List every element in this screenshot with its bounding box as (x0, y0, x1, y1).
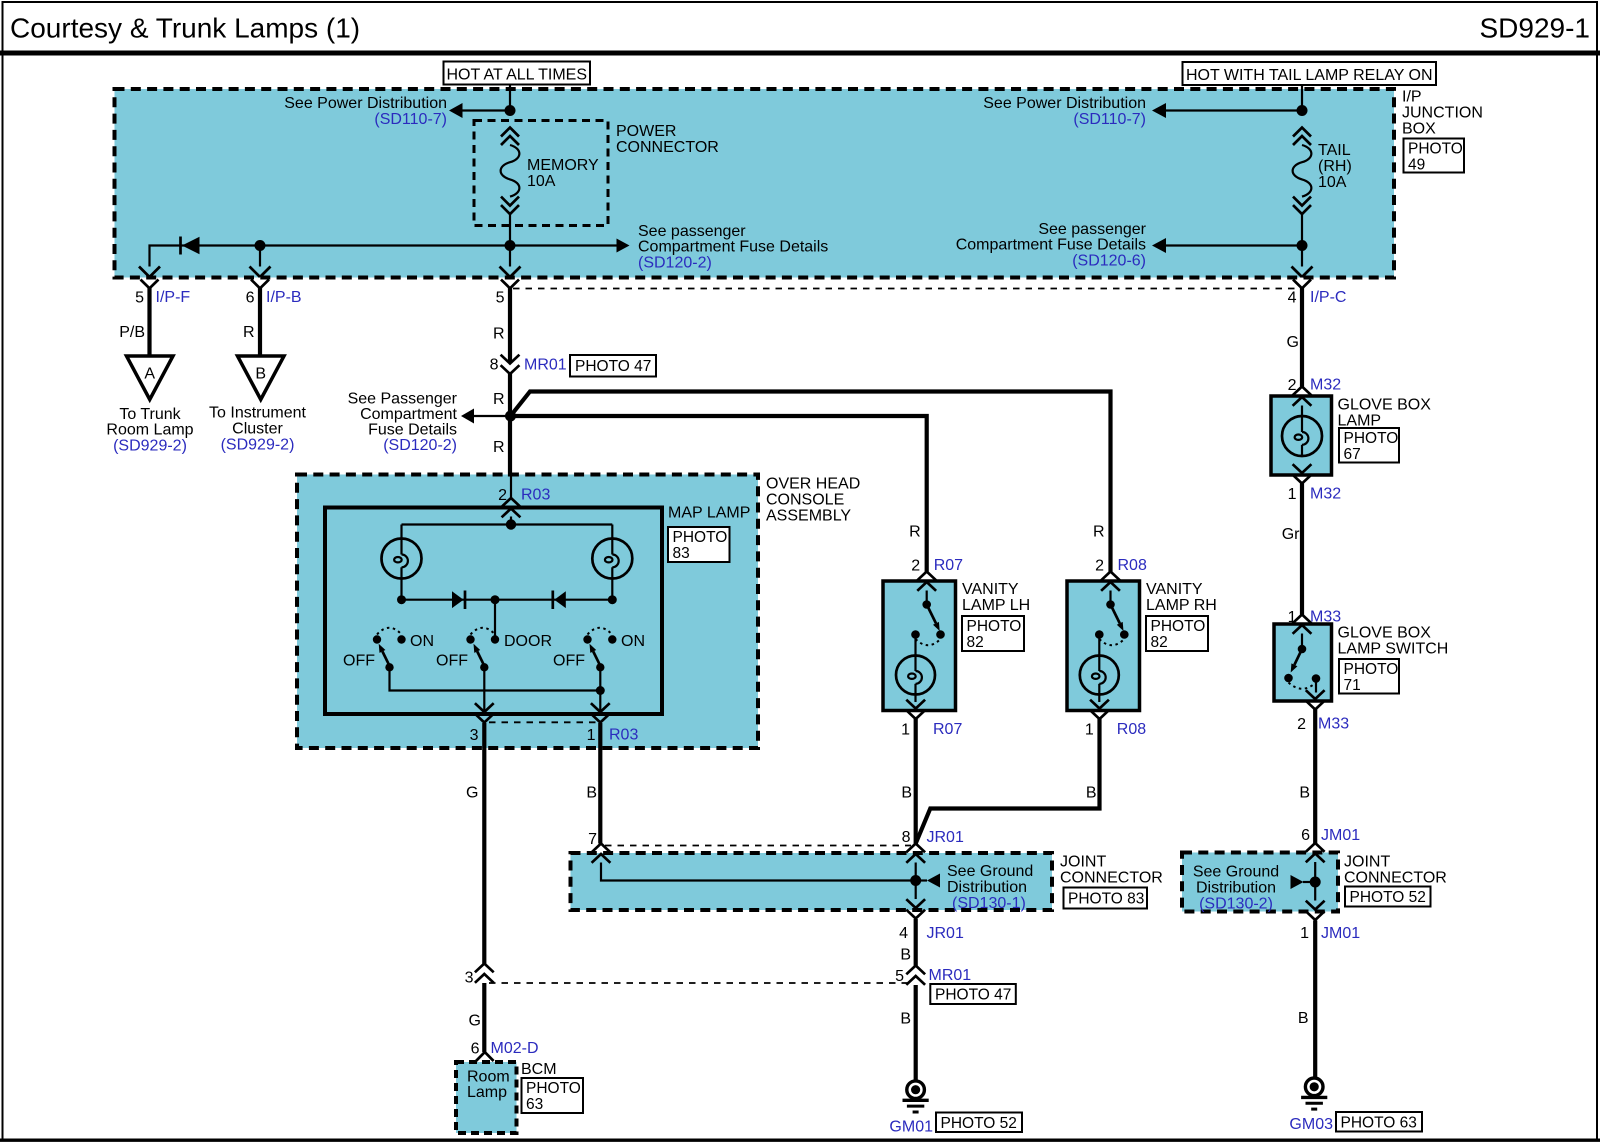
vanity lamp LH box (R07) (883, 581, 956, 711)
svg-text:ON: ON (621, 633, 645, 650)
svg-text:GLOVE BOX: GLOVE BOX (1338, 625, 1432, 642)
off-page triangle B to instrument cluster (238, 356, 285, 400)
svg-text:CONNECTOR: CONNECTOR (1344, 870, 1447, 887)
connector R03 pin 1 (587, 703, 639, 744)
svg-text:8: 8 (902, 829, 911, 846)
connector pin 4 at I/P junction box edge (I/P-C) (1288, 267, 1347, 307)
wire: lamp rail (402, 523, 613, 525)
svg-text:See Passenger: See Passenger (348, 391, 458, 408)
svg-text:To Trunk: To Trunk (119, 406, 181, 423)
wire: centre switch to pin 3 (483, 667, 485, 711)
node: vanity feed branch (505, 411, 516, 422)
svg-text:See Power Distribution: See Power Distribution (284, 95, 447, 112)
svg-text:LAMP LH: LAMP LH (962, 597, 1030, 614)
wire: bus centre down to door contact (494, 600, 496, 636)
connector JR01 pin 4 (899, 899, 964, 942)
svg-text:1: 1 (1300, 925, 1309, 942)
svg-text:10A: 10A (1318, 174, 1347, 191)
label: POWER CONNECTOR (616, 123, 719, 156)
map lamp switch centre (OFF/DOOR) (436, 628, 552, 672)
node: bus centre (491, 595, 500, 604)
fuse TAIL (RH) 10A (1293, 128, 1352, 215)
svg-text:7: 7 (588, 831, 597, 848)
wire: M32 to M33 (Gr) (1282, 484, 1302, 615)
wire: drop to pin 5 (509, 246, 511, 267)
node: junction at tail fuse feed (1297, 105, 1308, 116)
wire: right bulb to diode bus (611, 579, 613, 600)
glove box lamp bulb (1282, 406, 1322, 457)
svg-text:8: 8 (490, 357, 499, 374)
svg-text:LAMP RH: LAMP RH (1146, 597, 1217, 614)
node: junction at memory fuse feed (505, 105, 516, 116)
svg-text:M33: M33 (1310, 609, 1341, 626)
svg-text:Compartment Fuse Details: Compartment Fuse Details (638, 239, 828, 256)
svg-text:See passenger: See passenger (638, 223, 746, 240)
dashed connector link pin5 to pin4 (513, 288, 1300, 290)
svg-text:5: 5 (135, 290, 144, 307)
svg-text:Gr: Gr (1282, 526, 1300, 543)
node: bus junction at I/P-B drop (255, 240, 266, 251)
svg-text:MAP LAMP: MAP LAMP (668, 505, 750, 522)
wire: JR01 internal pin8 to pin4 (915, 863, 917, 900)
fuse MEMORY 10A (501, 128, 599, 215)
svg-text:I/P-B: I/P-B (266, 289, 302, 306)
svg-text:JOINT: JOINT (1344, 854, 1390, 871)
connector JM01 pin 1 (1300, 901, 1360, 942)
svg-text:49: 49 (1408, 157, 1425, 174)
svg-text:M02-D: M02-D (491, 1040, 539, 1057)
wire: R03 pin2 to lamp rail (510, 517, 512, 525)
see passenger compartment fuse details (SD120-2) arrow right (617, 223, 829, 272)
connector pin 6 at I/P junction box edge (I/P-B) (246, 267, 302, 307)
glove box lamp switch (1284, 634, 1320, 693)
svg-text:Distribution: Distribution (1196, 880, 1276, 897)
label: VANITY LAMP RH (1146, 581, 1217, 614)
off-page triangle A to trunk room lamp (127, 356, 174, 400)
svg-text:Lamp: Lamp (467, 1084, 507, 1101)
node: junction at pin 4 drop (1297, 240, 1308, 251)
label box: PHOTO 82 (R08) (1146, 616, 1208, 651)
svg-text:CONNECTOR: CONNECTOR (1060, 870, 1163, 887)
vanity lamp RH box (R08) (1067, 581, 1140, 711)
svg-text:M33: M33 (1318, 716, 1349, 733)
svg-text:SD929-1: SD929-1 (1479, 13, 1590, 44)
wire: node down to R03 pin 2 (R) (493, 416, 511, 498)
page bottom border rule (0, 1138, 1600, 1141)
glove box lamp box (M32) (1271, 396, 1332, 475)
see power distribution (left) arrow and text (284, 95, 510, 128)
glove box lamp switch box (M33) (1274, 624, 1332, 701)
svg-text:R: R (243, 324, 255, 341)
svg-text:R03: R03 (609, 727, 638, 744)
svg-text:6: 6 (471, 1041, 480, 1058)
label: MAP LAMP (668, 505, 750, 522)
svg-text:G: G (469, 1013, 481, 1030)
title separator rule (0, 51, 1600, 56)
svg-text:OFF: OFF (343, 653, 375, 670)
map lamp box (325, 508, 662, 715)
wire: JM01 internal run (1314, 862, 1316, 901)
svg-text:6: 6 (246, 290, 255, 307)
label: VANITY LAMP LH (962, 581, 1030, 614)
svg-text:B: B (901, 785, 912, 802)
svg-text:R07: R07 (933, 721, 962, 738)
svg-text:3: 3 (470, 727, 479, 744)
svg-text:JR01: JR01 (927, 829, 964, 846)
svg-text:Distribution: Distribution (947, 879, 1027, 896)
svg-text:67: 67 (1344, 446, 1361, 463)
wire: hot feed down (left) (509, 85, 511, 113)
node: bus junction at pin 5 drop (505, 240, 516, 251)
see ground distribution (SD130-1) arrow and text (921, 863, 1034, 912)
diode D2 (pointing right) (452, 591, 465, 610)
node: bus left (397, 595, 406, 604)
label: OVER HEAD CONSOLE ASSEMBLY (766, 476, 860, 525)
label box: PHOTO 83 (map lamp) (668, 527, 730, 562)
svg-text:JM01: JM01 (1321, 925, 1360, 942)
svg-text:M32: M32 (1310, 486, 1341, 503)
power connector (dashed box) (474, 121, 608, 226)
svg-text:(SD929-2): (SD929-2) (221, 437, 295, 454)
wire: drop to pin 6 (259, 246, 261, 267)
label: GLOVE BOX LAMP (1338, 397, 1432, 430)
svg-text:PHOTO 47: PHOTO 47 (935, 987, 1011, 1004)
wire label R above R08 (1093, 524, 1105, 541)
svg-text:PHOTO: PHOTO (1408, 141, 1463, 158)
wire: hot feed down (right) (1301, 85, 1303, 112)
svg-text:See Power Distribution: See Power Distribution (983, 95, 1146, 112)
wire: JM01 pin 1 to ground GM03 (B) (1298, 921, 1315, 1079)
svg-text:3: 3 (465, 970, 474, 987)
vanity lamp LH switch (911, 591, 945, 646)
map lamp switch right (OFF/ON) (553, 628, 645, 672)
connector JR01 pin 8 (902, 829, 964, 863)
svg-text:PHOTO 52: PHOTO 52 (1350, 889, 1426, 906)
connector R08 pin 2 (1095, 557, 1147, 591)
svg-text:4: 4 (1288, 290, 1297, 307)
diode D1 (bus, pointing left) (181, 237, 200, 255)
svg-text:82: 82 (967, 634, 984, 651)
svg-text:Compartment Fuse Details: Compartment Fuse Details (956, 237, 1146, 254)
see ground distribution (SD130-2) arrow and text (1193, 864, 1310, 913)
svg-text:P/B: P/B (119, 324, 145, 341)
svg-text:MEMORY: MEMORY (527, 157, 599, 174)
svg-text:71: 71 (1344, 677, 1361, 694)
svg-text:B: B (1299, 785, 1310, 802)
svg-text:Room Lamp: Room Lamp (106, 422, 193, 439)
svg-text:R: R (493, 439, 505, 456)
svg-text:ON: ON (410, 633, 434, 650)
wire: MR01 down to branch node (R) (493, 374, 510, 417)
svg-text:PHOTO 52: PHOTO 52 (941, 1115, 1017, 1132)
connector R07 pin 1 (901, 700, 962, 739)
wire: R07 pin 1 down to JR01 pin 8 (B) (901, 719, 915, 844)
wire: pin5 I/P-F down (P/B) (119, 288, 149, 356)
svg-text:I/P-F: I/P-F (156, 289, 191, 306)
svg-text:See Ground: See Ground (1193, 864, 1279, 881)
wire: connector 3 down to BCM (G) (469, 983, 485, 1052)
label: Room Lamp (467, 1069, 510, 1102)
svg-text:63: 63 (526, 1096, 543, 1113)
svg-text:VANITY: VANITY (1146, 581, 1203, 598)
svg-text:(SD929-2): (SD929-2) (113, 438, 187, 455)
wire: left bulb to diode bus (400, 579, 402, 600)
map lamp bulb right (592, 525, 632, 579)
label box: PHOTO 67 (1339, 428, 1399, 463)
I/P junction box (dashed cyan) (115, 89, 1395, 278)
svg-text:1: 1 (1085, 722, 1094, 739)
svg-text:I/P-C: I/P-C (1310, 289, 1346, 306)
connector R03 pin 2 (498, 487, 550, 518)
see passenger compartment fuse details (SD120-2) arrow left (348, 391, 508, 455)
svg-text:OFF: OFF (553, 653, 585, 670)
wire: branch to vanity lamp LH (lower run) (511, 416, 927, 572)
svg-text:(SD130-1): (SD130-1) (952, 895, 1026, 912)
svg-text:G: G (466, 785, 478, 802)
svg-text:JM01: JM01 (1321, 827, 1360, 844)
connector pin 5 at I/P junction box edge (I/P-F) (135, 267, 190, 307)
wire: pin 4 I/P-C down (G) (1287, 288, 1302, 387)
label box: PHOTO 52 (JM01) (1345, 887, 1431, 907)
wire: pin 5 down to MR01 (R) (493, 288, 510, 363)
svg-text:G: G (1287, 334, 1299, 351)
map lamp switch left (OFF/ON) (343, 628, 434, 672)
svg-text:1: 1 (587, 727, 596, 744)
ground GM01 (889, 1081, 933, 1136)
label box: PHOTO 82 (R07) (962, 616, 1024, 651)
label box: PHOTO 52 (GM01) (936, 1113, 1022, 1133)
svg-text:R03: R03 (521, 487, 550, 504)
label: JOINT CONNECTOR (JR01) (1060, 854, 1163, 887)
svg-text:JR01: JR01 (927, 925, 964, 942)
dashed connector link JR01 pin7 to pin8 (605, 845, 911, 847)
svg-text:I/P: I/P (1402, 89, 1422, 106)
label: GLOVE BOX LAMP SWITCH (1338, 625, 1449, 658)
svg-text:PHOTO: PHOTO (1344, 661, 1399, 678)
svg-text:(SD110-7): (SD110-7) (374, 111, 447, 128)
svg-text:R: R (493, 391, 505, 408)
svg-text:1: 1 (901, 722, 910, 739)
wire: diode bus (402, 599, 613, 601)
see passenger compartment fuse details (SD120-6) arrow and text (956, 221, 1302, 270)
overhead console assembly (dashed cyan box) (297, 475, 758, 749)
svg-text:M32: M32 (1310, 377, 1341, 394)
svg-text:B: B (586, 785, 597, 802)
svg-text:LAMP SWITCH: LAMP SWITCH (1338, 641, 1449, 658)
svg-text:2: 2 (1095, 558, 1104, 575)
svg-text:6: 6 (1301, 827, 1310, 844)
svg-text:MR01: MR01 (524, 357, 567, 374)
svg-text:Fuse Details: Fuse Details (368, 422, 457, 439)
svg-text:1: 1 (1288, 609, 1297, 626)
svg-text:(SD120-2): (SD120-2) (383, 437, 457, 454)
svg-text:PHOTO: PHOTO (673, 529, 728, 546)
connector M32 pin 1 (1288, 464, 1342, 503)
connector R03 pin 3 (470, 703, 494, 744)
sheet number SD929-1 (1479, 13, 1590, 44)
connector M02-D pin 6 (471, 1040, 539, 1061)
svg-text:R: R (909, 524, 921, 541)
svg-text:(SD120-6): (SD120-6) (1072, 253, 1146, 270)
label: To Trunk Room Lamp (SD929-2) (106, 406, 193, 455)
svg-text:PHOTO 47: PHOTO 47 (575, 358, 651, 375)
label box: PHOTO 71 (1339, 659, 1399, 694)
svg-text:CONNECTOR: CONNECTOR (616, 139, 719, 156)
svg-text:HOT WITH TAIL LAMP RELAY ON: HOT WITH TAIL LAMP RELAY ON (1186, 67, 1433, 84)
svg-text:2: 2 (911, 558, 920, 575)
svg-text:Compartment: Compartment (360, 406, 457, 423)
svg-text:Cluster: Cluster (232, 421, 283, 438)
title: Courtesy &amp; Trunk Lamps (1) (10, 13, 360, 44)
svg-text:(SD130-2): (SD130-2) (1199, 896, 1273, 913)
svg-text:4: 4 (899, 925, 908, 942)
wire label R above R07 (909, 524, 921, 541)
svg-text:82: 82 (1151, 634, 1168, 651)
label: JOINT CONNECTOR (JM01) (1344, 854, 1447, 887)
connector pin 5 at I/P junction box edge (496, 267, 521, 307)
svg-text:B: B (1298, 1010, 1309, 1027)
label box: PHOTO 63 (GM03) (1336, 1112, 1422, 1132)
svg-text:A: A (144, 366, 155, 383)
svg-text:5: 5 (496, 290, 505, 307)
diode D3 (pointing left) (553, 591, 566, 610)
vanity lamp RH switch (1095, 591, 1129, 646)
label: HOT AT ALL TIMES (444, 62, 591, 85)
wire: M33 pin 2 down to JM01 pin 6 (B) (1299, 710, 1315, 844)
vanity lamp LH bulb (896, 635, 935, 703)
node: bus right (608, 595, 617, 604)
svg-text:HOT AT ALL TIMES: HOT AT ALL TIMES (447, 67, 588, 84)
label box: PHOTO 47 (MR01 lower) (930, 984, 1016, 1004)
svg-text:GLOVE BOX: GLOVE BOX (1338, 397, 1432, 414)
svg-text:To Instrument: To Instrument (209, 405, 306, 422)
svg-text:(SD110-7): (SD110-7) (1073, 111, 1146, 128)
svg-text:LAMP: LAMP (1338, 413, 1382, 430)
wire: tail fuse down (1301, 214, 1303, 266)
svg-text:JUNCTION: JUNCTION (1402, 105, 1483, 122)
svg-text:ASSEMBLY: ASSEMBLY (766, 508, 851, 525)
svg-text:VANITY: VANITY (962, 581, 1019, 598)
wire: JR01 internal pin7 run (601, 863, 916, 881)
wire: memory fuse to bus (509, 214, 511, 245)
svg-text:R08: R08 (1118, 557, 1147, 574)
svg-text:MR01: MR01 (929, 967, 972, 984)
label: HOT WITH TAIL LAMP RELAY ON (1183, 62, 1437, 85)
wire: switch return bus (390, 667, 601, 690)
svg-text:JOINT: JOINT (1060, 854, 1106, 871)
dashed connector link 3 to MR01 pin 5 (489, 982, 910, 984)
connector M33 pin 2 (1297, 690, 1349, 733)
connector JR01 pin 7 (588, 831, 610, 863)
svg-text:Courtesy & Trunk Lamps (1): Courtesy & Trunk Lamps (1) (10, 13, 360, 44)
wire: JR01 pin 4 down (B) (900, 919, 915, 966)
svg-text:2: 2 (498, 487, 507, 504)
label box: PHOTO 83 (JR01) (1064, 888, 1148, 909)
dashed connector link R03 pin3 to pin1 (489, 721, 596, 723)
svg-text:(RH): (RH) (1318, 158, 1352, 175)
svg-text:See passenger: See passenger (1038, 221, 1146, 238)
label: To Instrument Cluster (SD929-2) (209, 405, 306, 454)
node: JR01 ground bus (910, 875, 921, 886)
label box: PHOTO 47 (MR01) (570, 355, 656, 377)
svg-text:B: B (900, 947, 911, 964)
wire: R03 pin 3 down (G) (466, 723, 484, 964)
svg-text:PHOTO: PHOTO (1151, 618, 1206, 635)
joint connector box (JR01, dashed cyan) (571, 853, 1053, 910)
svg-text:GM03: GM03 (1289, 1116, 1333, 1133)
ground GM03 (1289, 1078, 1333, 1133)
svg-text:2: 2 (1297, 716, 1306, 733)
wire: R03 pin 1 down to JR01 pin 7 (B) (586, 723, 600, 844)
connector M32 pin 2 (1288, 377, 1342, 406)
connector JM01 pin 6 (1301, 827, 1360, 862)
BCM room lamp box (dashed cyan) (456, 1062, 517, 1133)
svg-text:PHOTO 63: PHOTO 63 (1341, 1115, 1417, 1132)
svg-text:TAIL: TAIL (1318, 142, 1351, 159)
svg-text:BCM: BCM (521, 1061, 557, 1078)
svg-text:PHOTO: PHOTO (967, 618, 1022, 635)
svg-text:10A: 10A (527, 173, 556, 190)
wire: MR01 pin5 to ground GM01 (B) (900, 985, 915, 1081)
svg-text:(SD120-2): (SD120-2) (638, 255, 712, 272)
connector R07 pin 2 (911, 557, 963, 591)
node: JM01 ground bus (1310, 877, 1321, 888)
label: BCM (521, 1061, 557, 1078)
svg-text:R: R (1093, 524, 1105, 541)
svg-text:Room: Room (467, 1069, 510, 1086)
see power distribution (right) arrow and text (983, 95, 1302, 128)
in-line connector MR01 pin 8 (490, 355, 567, 374)
svg-text:B: B (1086, 785, 1097, 802)
connector R08 pin 1 (1085, 700, 1146, 739)
svg-text:PHOTO 83: PHOTO 83 (1068, 891, 1144, 908)
svg-text:83: 83 (673, 545, 690, 562)
svg-text:BOX: BOX (1402, 121, 1436, 138)
svg-text:2: 2 (1288, 377, 1297, 394)
wire: pin6 I/P-B down (R) (243, 288, 260, 356)
svg-text:R07: R07 (934, 557, 963, 574)
svg-text:1: 1 (1288, 486, 1297, 503)
svg-text:B: B (255, 366, 266, 383)
map lamp bulb left (382, 525, 422, 579)
label box: PHOTO 63 (BCM) (522, 1078, 584, 1113)
node: lamp rail junction (506, 519, 516, 529)
svg-text:See Ground: See Ground (947, 863, 1033, 880)
vanity lamp RH bulb (1080, 635, 1119, 703)
wire: left power bus (150, 246, 617, 267)
svg-text:GM01: GM01 (889, 1119, 933, 1136)
svg-text:B: B (900, 1011, 911, 1028)
node: return bus right (596, 686, 605, 695)
svg-text:R08: R08 (1117, 721, 1146, 738)
svg-text:R: R (493, 326, 505, 343)
connector M33 pin 1 (1288, 609, 1342, 634)
wire: R08 pin 1 down to JR01 pin 8 (B) (916, 719, 1100, 844)
svg-text:DOOR: DOOR (504, 633, 552, 650)
svg-text:OFF: OFF (436, 653, 468, 670)
in-line connector 3 (left wire) (465, 964, 494, 987)
svg-text:POWER: POWER (616, 123, 676, 140)
wire: branch to vanity lamp RH (upper run) (511, 392, 1111, 572)
svg-text:CONSOLE: CONSOLE (766, 492, 844, 509)
label: I/P JUNCTION BOX (1402, 89, 1483, 138)
svg-text:OVER HEAD: OVER HEAD (766, 476, 860, 493)
joint connector box (JM01, dashed cyan) (1182, 853, 1338, 912)
in-line connector MR01 pin 5 (895, 966, 971, 986)
wire: right switch to node and pin 1 (599, 667, 601, 711)
svg-text:PHOTO: PHOTO (526, 1080, 581, 1097)
svg-text:PHOTO: PHOTO (1344, 430, 1399, 447)
